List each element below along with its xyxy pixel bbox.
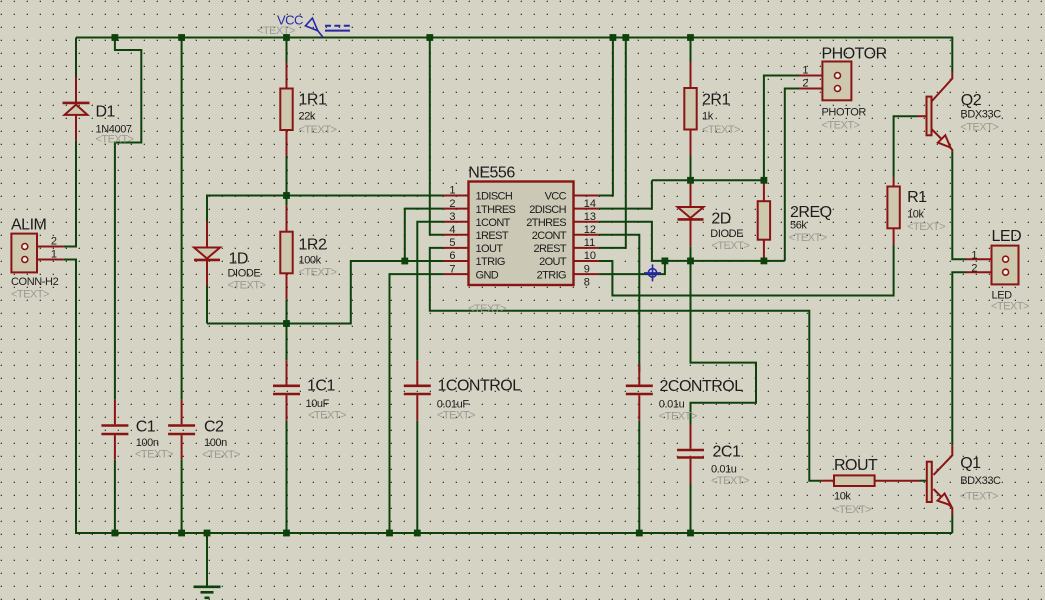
- svg-text:100n: 100n: [204, 437, 227, 449]
- junction rail / C2: [178, 530, 185, 537]
- junction 1THRES-1TRIG tie: [401, 258, 408, 265]
- junction node B / 2REQ bottom: [761, 258, 768, 265]
- wire node 1THRES/1TRIG: 1D-1R2 bottom to pin6: [207, 261, 444, 324]
- junction rail / 1CONTROL: [414, 530, 421, 537]
- svg-text:10: 10: [584, 250, 596, 262]
- svg-text:10k: 10k: [907, 209, 924, 221]
- svg-text:1k: 1k: [702, 111, 714, 123]
- wire node B to 2C1 top (jog around 2CONTROL label): [691, 261, 757, 424]
- wire pin7 GND to rail: [390, 274, 444, 533]
- svg-text:<TEXT>: <TEXT>: [96, 134, 134, 146]
- svg-text:BDX33C: BDX33C: [960, 109, 1001, 121]
- wire 1C1 top join: [286, 324, 288, 361]
- wire 2D cathode to node B: [690, 247, 692, 261]
- svg-text:VCC: VCC: [545, 191, 567, 203]
- svg-text:<TEXT>: <TEXT>: [711, 475, 749, 487]
- capacitor 2CONTROL 0.01u: [626, 365, 653, 421]
- svg-text:ALIM: ALIM: [11, 217, 47, 234]
- capacitor C1 100n: [101, 400, 128, 460]
- capacitor C2 100n: [168, 400, 195, 460]
- svg-text:2TRIG: 2TRIG: [537, 269, 566, 281]
- svg-text:<TEXT>: <TEXT>: [228, 280, 266, 292]
- svg-text:D1: D1: [96, 104, 116, 121]
- junction top rail / 2REST: [622, 34, 629, 41]
- svg-text:PHOTOR: PHOTOR: [822, 46, 887, 63]
- svg-text:<TEXT>: <TEXT>: [789, 232, 827, 244]
- wire left rail to D1 anode: [75, 38, 77, 78]
- connector ALIM (CONN-H2): [11, 234, 63, 273]
- transistor Q1 BDX33C: [927, 445, 953, 514]
- diode D1: [63, 77, 90, 141]
- wire top rail to 2R1 top: [690, 38, 692, 63]
- capacitor 2C1 0.01u: [677, 424, 704, 484]
- svg-text:10k: 10k: [834, 491, 851, 503]
- wire pin VCC to top rail: [599, 38, 613, 196]
- svg-text:<TEXT>: <TEXT>: [833, 504, 871, 516]
- svg-text:2THRES: 2THRES: [526, 217, 566, 229]
- wire VCC top rail and Q2 collector drop: [76, 38, 952, 73]
- svg-text:4: 4: [449, 224, 455, 236]
- svg-text:DIODE: DIODE: [710, 228, 743, 240]
- svg-text:1R1: 1R1: [299, 92, 327, 109]
- wire node B horizontal: [652, 260, 785, 262]
- resistor ROUT 10k: [821, 475, 920, 486]
- wire 2R1 bottom to node A: [690, 156, 692, 181]
- junction node A / 2REQ top: [761, 177, 768, 184]
- resistor 1R1 22k: [280, 63, 292, 157]
- wire PHOTOR pin2 to node B: [785, 89, 799, 261]
- svg-text:3: 3: [449, 211, 455, 223]
- wire 1CONTROL bottom to rail: [416, 421, 418, 533]
- svg-text:100n: 100n: [136, 437, 159, 449]
- wire 1C1 bottom to rail: [286, 421, 288, 533]
- junction top rail / C2 column: [178, 34, 185, 41]
- svg-text:1: 1: [51, 249, 57, 261]
- svg-text:1: 1: [449, 185, 455, 197]
- junction 1DISCH row / 1R1-1R2: [283, 192, 290, 199]
- svg-text:100k: 100k: [299, 255, 322, 267]
- svg-text:BDX33C: BDX33C: [960, 475, 1001, 487]
- svg-text:<TEXT>: <TEXT>: [468, 303, 506, 315]
- svg-text:2REQ: 2REQ: [790, 204, 832, 221]
- wire LED pin2 to Q1 collector: [952, 272, 966, 445]
- svg-text:56k: 56k: [790, 220, 807, 232]
- svg-text:C1: C1: [136, 419, 156, 436]
- wire ROUT to Q1 base: [920, 480, 927, 482]
- wire pin4 1REST to VCC rail: [430, 38, 444, 235]
- junction rail / 2CONTROL: [636, 530, 643, 537]
- svg-text:ROUT: ROUT: [834, 457, 878, 474]
- junction node B / 2D-2C1: [687, 258, 694, 265]
- svg-text:11: 11: [584, 237, 595, 249]
- svg-text:6: 6: [449, 250, 455, 262]
- svg-text:10uF: 10uF: [306, 398, 330, 410]
- svg-text:8: 8: [584, 276, 590, 288]
- junction rail / C1: [112, 530, 119, 537]
- svg-text:<TEXT>: <TEXT>: [822, 120, 860, 132]
- node marker crosshair: [644, 264, 661, 281]
- wire 1R1 bottom to node 1DISCH row: [286, 156, 288, 196]
- svg-text:2: 2: [51, 236, 57, 248]
- svg-text:<TEXT>: <TEXT>: [960, 491, 998, 503]
- svg-text:2REST: 2REST: [534, 243, 567, 255]
- svg-text:1: 1: [802, 65, 808, 77]
- junction rail / 1C1: [283, 530, 290, 537]
- svg-text:2R1: 2R1: [702, 92, 730, 109]
- junction node A / 2R1-2D: [687, 177, 694, 184]
- svg-text:5: 5: [449, 237, 455, 249]
- svg-text:Q2: Q2: [961, 92, 982, 109]
- svg-text:<TEXT>: <TEXT>: [991, 301, 1029, 313]
- svg-text:<TEXT>: <TEXT>: [711, 240, 749, 252]
- connector LED: [966, 246, 1019, 285]
- svg-text:2OUT: 2OUT: [539, 256, 567, 268]
- svg-text:DIODE: DIODE: [228, 268, 261, 280]
- svg-text:1DISCH: 1DISCH: [476, 191, 513, 203]
- svg-text:0.01u: 0.01u: [711, 464, 737, 476]
- svg-text:<TEXT>: <TEXT>: [11, 289, 49, 301]
- wire top rail jog to C1 top: [115, 38, 141, 400]
- capacitor 1C1 10uF: [273, 360, 300, 420]
- transistor Q2 BDX33C: [917, 72, 952, 152]
- wire pin 2REST to top rail: [599, 38, 626, 248]
- svg-text:<TEXT>: <TEXT>: [308, 410, 346, 422]
- svg-text:<TEXT>: <TEXT>: [907, 221, 945, 233]
- svg-text:22k: 22k: [299, 111, 316, 123]
- wire top rail to 1R1 top: [286, 38, 288, 63]
- wire 1D cathode down: [206, 286, 208, 324]
- wire R1 top to Q2 base: [894, 116, 917, 178]
- resistor R1 10k: [887, 178, 899, 245]
- wire top rail to C2 top: [181, 38, 183, 400]
- junction 1R2 bottom / 1C1: [283, 320, 290, 327]
- svg-text:2CONTROL: 2CONTROL: [660, 378, 744, 395]
- svg-text:2CONT: 2CONT: [532, 230, 567, 242]
- svg-text:<TEXT>: <TEXT>: [437, 410, 475, 422]
- wire D1 cathode to ALIM pin2: [63, 141, 76, 247]
- svg-text:NE556: NE556: [468, 165, 515, 182]
- svg-text:9: 9: [584, 263, 590, 275]
- wire pin 2THRES to node B: [599, 222, 652, 261]
- svg-text:1D: 1D: [229, 251, 248, 268]
- svg-text:2: 2: [971, 262, 977, 274]
- svg-text:<TEXT>: <TEXT>: [299, 124, 337, 136]
- junction top rail / 1REST: [426, 34, 433, 41]
- svg-text:<TEXT>: <TEXT>: [135, 449, 173, 461]
- svg-text:<TEXT>: <TEXT>: [702, 124, 740, 136]
- svg-text:Q1: Q1: [960, 455, 981, 472]
- ground: [194, 533, 221, 598]
- NE556 left pin stubs 1-7: [444, 196, 469, 275]
- wire pin 2CONT to 2CONTROL top: [599, 235, 640, 372]
- wire pin3 1CONT to 1CONTROL top: [417, 222, 444, 361]
- svg-text:2C1: 2C1: [713, 444, 741, 461]
- svg-text:1R2: 1R2: [299, 237, 327, 254]
- svg-text:<TEXT>: <TEXT>: [659, 411, 697, 423]
- svg-text:2: 2: [802, 78, 808, 90]
- svg-text:2D: 2D: [711, 211, 730, 228]
- svg-text:14: 14: [584, 198, 596, 210]
- svg-text:2: 2: [449, 198, 455, 210]
- svg-text:CONN-H2: CONN-H2: [11, 276, 59, 288]
- junction top rail / D1 column: [112, 34, 119, 41]
- capacitor 1CONTROL 0.01uF: [404, 360, 431, 420]
- junction top rail / 1R1: [283, 34, 290, 41]
- svg-text:1C1: 1C1: [307, 378, 335, 395]
- wire ALIM pin1 to ground rail (bottom rail): [63, 260, 952, 534]
- svg-text:LED: LED: [992, 228, 1022, 245]
- resistor 2R1 1k: [684, 62, 696, 156]
- wire 1R2 top lead join: [286, 196, 288, 206]
- svg-text:GND: GND: [476, 269, 499, 281]
- connector PHOTOR: [799, 62, 851, 101]
- svg-text:<TEXT>: <TEXT>: [960, 122, 998, 134]
- power symbol VCC: [305, 18, 352, 37]
- svg-text:13: 13: [584, 211, 596, 223]
- junction rail / 2C1: [687, 530, 694, 537]
- wire pin2 1THRES tie to pin6: [405, 209, 444, 261]
- diode 1D: [194, 222, 220, 286]
- wire 2C1 bottom to rail: [690, 484, 692, 534]
- svg-text:1CONTROL: 1CONTROL: [438, 378, 522, 395]
- wire pin 2OUT to R1 bottom: [599, 244, 894, 295]
- wire PHOTOR pin1 to node A: [764, 76, 799, 181]
- svg-text:1THRES: 1THRES: [476, 204, 516, 216]
- wire pin5 1OUT to ROUT: [430, 248, 821, 481]
- svg-text:C2: C2: [204, 419, 224, 436]
- NE556 right pin stubs 14-8: [574, 196, 599, 275]
- svg-text:<TEXT>: <TEXT>: [299, 267, 337, 279]
- wire node 1DISCH row: 1D top to pin1: [207, 196, 444, 222]
- diode 2D: [678, 181, 704, 247]
- wire node A horizontal 2R1 bottom: [652, 179, 764, 181]
- junction top rail / VCC pin: [610, 34, 617, 41]
- svg-text:1OUT: 1OUT: [476, 243, 504, 255]
- svg-text:<TEXT>: <TEXT>: [202, 449, 240, 461]
- wire Q2 emitter to LED pin1: [952, 152, 966, 260]
- wire pin 2DISCH to node A: [599, 180, 652, 208]
- wire 1R2 bottom join: [286, 299, 288, 323]
- wire Q1 emitter to rail: [951, 515, 953, 534]
- wire 2CONTROL bottom to rail: [638, 421, 640, 533]
- wire C1 bottom to rail: [114, 460, 116, 533]
- junction node B / 2THRES-2TRIG: [662, 258, 669, 265]
- wire C2 bottom to rail: [181, 460, 183, 533]
- svg-text:R1: R1: [907, 189, 927, 206]
- op-amp/timer U1 NE556 body: [469, 182, 574, 286]
- resistor 2REQ 56k: [758, 180, 770, 261]
- junction rail / ground: [204, 530, 211, 537]
- svg-text:2DISCH: 2DISCH: [529, 204, 566, 216]
- resistor 1R2 100k: [280, 206, 292, 300]
- svg-text:1CONT: 1CONT: [476, 217, 511, 229]
- svg-text:1TRIG: 1TRIG: [476, 256, 505, 268]
- svg-text:1REST: 1REST: [476, 230, 509, 242]
- svg-text:12: 12: [584, 224, 596, 236]
- wire pin 2TRIG to node B: [599, 261, 665, 274]
- junction rail / GND pin: [386, 530, 393, 537]
- svg-text:PHOTOR: PHOTOR: [822, 107, 867, 119]
- svg-text:7: 7: [449, 263, 455, 275]
- svg-text:1: 1: [971, 249, 977, 261]
- svg-text:0.01u: 0.01u: [659, 399, 685, 411]
- junction top rail / 2R1: [687, 34, 694, 41]
